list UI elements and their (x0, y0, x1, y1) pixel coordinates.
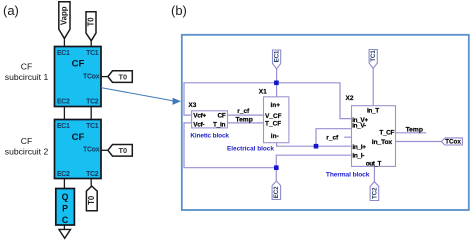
svg-text:V_CF: V_CF (265, 113, 282, 120)
svg-text:r_cf: r_cf (237, 108, 250, 115)
svg-text:T0: T0 (118, 72, 127, 81)
svg-text:TC2: TC2 (371, 187, 378, 199)
svg-text:TC1: TC1 (86, 123, 99, 130)
svg-text:T_in: T_in (213, 121, 225, 128)
svg-text:TC2: TC2 (86, 99, 99, 106)
svg-text:EC1: EC1 (273, 50, 280, 62)
svg-text:X3: X3 (188, 102, 196, 109)
svg-text:T0: T0 (87, 195, 96, 205)
svg-text:TCox: TCox (83, 73, 100, 80)
svg-text:Thermal block: Thermal block (326, 171, 370, 178)
svg-text:T0: T0 (86, 17, 95, 27)
svg-text:in_V-: in_V- (352, 123, 366, 130)
svg-text:CF: CF (72, 58, 85, 69)
svg-text:CF: CF (21, 62, 32, 72)
svg-text:EC1: EC1 (57, 123, 70, 130)
svg-text:T_CF: T_CF (265, 121, 281, 128)
svg-text:Vcf+: Vcf+ (193, 113, 206, 120)
svg-text:T_CF: T_CF (379, 130, 394, 137)
svg-text:CF: CF (218, 113, 226, 120)
svg-text:EC2: EC2 (57, 171, 70, 178)
svg-text:EC2: EC2 (57, 99, 70, 106)
svg-text:TC1: TC1 (86, 50, 99, 57)
svg-text:in-: in- (271, 133, 279, 140)
svg-text:Temp: Temp (236, 116, 253, 123)
svg-text:(b): (b) (171, 3, 187, 18)
svg-text:r_cf: r_cf (326, 135, 339, 142)
svg-text:TCox: TCox (83, 146, 100, 153)
svg-text:Electrical block: Electrical block (227, 146, 274, 153)
svg-text:out_T: out_T (366, 160, 382, 167)
svg-text:C: C (62, 215, 69, 225)
svg-text:T0: T0 (118, 146, 127, 155)
svg-text:subcircuit 2: subcircuit 2 (5, 147, 49, 157)
svg-text:Temp: Temp (406, 127, 423, 134)
svg-text:in_T: in_T (367, 107, 379, 114)
svg-text:X1: X1 (259, 88, 267, 95)
svg-text:in+: in+ (271, 102, 281, 109)
svg-text:Kinetic block: Kinetic block (190, 132, 229, 139)
svg-text:Vapp: Vapp (60, 6, 69, 25)
svg-text:in_I-: in_I- (352, 153, 364, 160)
svg-text:P: P (62, 203, 68, 213)
svg-text:EC1: EC1 (57, 50, 70, 57)
svg-text:TC2: TC2 (86, 171, 99, 178)
svg-text:CF: CF (72, 132, 85, 143)
svg-text:Q: Q (62, 192, 69, 202)
svg-text:subcircuit 1: subcircuit 1 (5, 72, 49, 82)
svg-text:in_Tox: in_Tox (372, 139, 393, 146)
svg-text:in_I+: in_I+ (352, 144, 366, 151)
svg-text:(a): (a) (3, 3, 19, 18)
svg-text:CF: CF (21, 136, 32, 146)
svg-text:TCox: TCox (445, 139, 461, 146)
svg-text:TC1: TC1 (370, 50, 377, 62)
svg-text:X2: X2 (346, 95, 354, 102)
svg-text:Vcf-: Vcf- (193, 121, 204, 128)
svg-text:EC2: EC2 (273, 186, 280, 198)
